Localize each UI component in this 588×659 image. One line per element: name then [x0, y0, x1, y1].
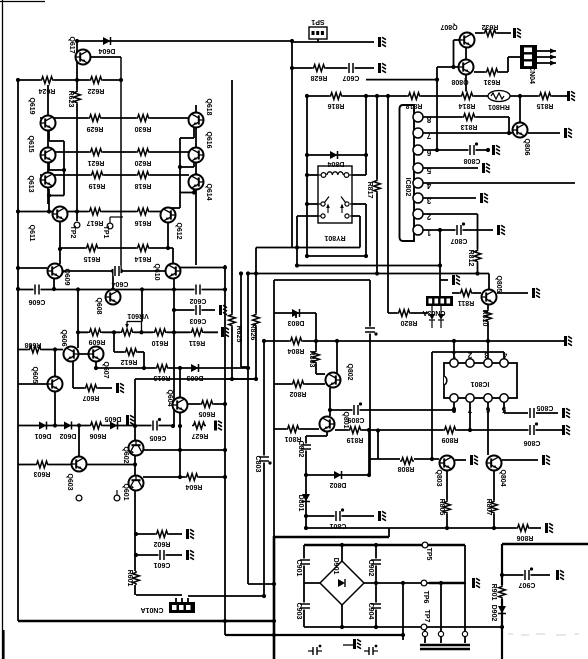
svg-text:SP1: SP1 — [311, 18, 324, 25]
svg-text:R612: R612 — [121, 358, 138, 365]
svg-text:6: 6 — [426, 148, 431, 157]
svg-text:Q806: Q806 — [523, 138, 530, 155]
svg-text:R625: R625 — [235, 326, 242, 343]
svg-text:C802: C802 — [297, 441, 304, 458]
svg-text:Q614: Q614 — [205, 183, 212, 200]
svg-text:TP1: TP1 — [102, 226, 109, 239]
svg-text:C806: C806 — [524, 439, 541, 446]
svg-text:R622: R622 — [88, 87, 105, 94]
svg-text:8: 8 — [451, 405, 456, 414]
svg-text:1: 1 — [451, 351, 456, 360]
svg-text:R629: R629 — [87, 125, 104, 132]
svg-text:Q617: Q617 — [68, 36, 75, 53]
svg-text:C605: C605 — [150, 434, 167, 441]
svg-text:R607: R607 — [83, 394, 100, 401]
svg-text:R815: R815 — [537, 102, 554, 109]
svg-text:R632: R632 — [482, 23, 499, 30]
svg-text:R618: R618 — [135, 182, 152, 189]
svg-text:R805: R805 — [438, 499, 445, 516]
svg-text:R601: R601 — [126, 570, 133, 587]
svg-text:Q604: Q604 — [166, 389, 173, 406]
svg-text:R608: R608 — [25, 341, 42, 348]
svg-text:4: 4 — [426, 181, 431, 190]
svg-text:R808: R808 — [398, 465, 415, 472]
svg-text:R603: R603 — [34, 470, 51, 477]
svg-text:R811: R811 — [458, 299, 474, 306]
svg-text:R814: R814 — [459, 102, 476, 109]
svg-text:R602: R602 — [154, 540, 171, 547]
svg-text:R604: R604 — [186, 483, 203, 490]
svg-text:1: 1 — [426, 228, 431, 237]
svg-text:Q609: Q609 — [63, 268, 70, 285]
svg-text:R611: R611 — [189, 339, 205, 346]
svg-text:R609: R609 — [89, 338, 106, 345]
svg-text:VR601: VR601 — [127, 312, 149, 319]
svg-text:R818: R818 — [406, 102, 423, 109]
svg-text:C902: C902 — [367, 560, 374, 577]
svg-text:Q602: Q602 — [122, 446, 129, 463]
svg-text:C907: C907 — [519, 581, 536, 588]
svg-text:Q616: Q616 — [205, 131, 212, 148]
svg-text:R820: R820 — [401, 319, 418, 326]
svg-text:R615: R615 — [84, 255, 101, 262]
svg-text:Q807: Q807 — [440, 23, 457, 30]
svg-text:Q608: Q608 — [95, 297, 102, 314]
svg-text:R901: R901 — [490, 584, 497, 601]
svg-text:D802: D802 — [330, 481, 347, 488]
svg-text:R621: R621 — [88, 159, 105, 166]
svg-text:Q613: Q613 — [27, 175, 34, 192]
svg-text:R616: R616 — [135, 219, 152, 226]
svg-text:CN03A: CN03A — [423, 309, 446, 316]
svg-text:R628: R628 — [311, 74, 328, 81]
svg-text:Q601: Q601 — [122, 483, 129, 500]
svg-text:6: 6 — [485, 405, 490, 414]
svg-text:Q803: Q803 — [435, 469, 442, 486]
svg-text:R810: R810 — [481, 310, 488, 327]
svg-text:C807: C807 — [451, 237, 468, 244]
svg-text:8: 8 — [426, 115, 431, 124]
svg-text:Q603: Q603 — [66, 473, 73, 490]
svg-text:D901: D901 — [332, 558, 339, 575]
svg-text:C607: C607 — [343, 74, 360, 81]
svg-text:IC802: IC802 — [404, 178, 411, 197]
svg-text:RY801: RY801 — [324, 234, 345, 241]
svg-text:Q802: Q802 — [346, 363, 353, 380]
svg-text:Q619: Q619 — [28, 97, 35, 114]
svg-text:R624: R624 — [39, 87, 56, 94]
svg-text:R826: R826 — [249, 324, 256, 341]
svg-text:D601: D601 — [35, 432, 52, 439]
svg-text:7: 7 — [467, 405, 472, 414]
svg-text:R627: R627 — [192, 432, 209, 439]
svg-text:R619: R619 — [89, 182, 106, 189]
svg-text:7: 7 — [426, 131, 431, 140]
svg-text:R812: R812 — [467, 250, 474, 267]
svg-text:R617: R617 — [87, 219, 104, 226]
svg-text:5: 5 — [426, 166, 431, 175]
svg-text:D801: D801 — [297, 495, 304, 512]
svg-text:R605: R605 — [199, 410, 216, 417]
svg-text:TP5: TP5 — [425, 548, 432, 561]
svg-text:C901: C901 — [295, 560, 302, 577]
svg-text:D605: D605 — [105, 415, 122, 422]
svg-text:Q808: Q808 — [451, 78, 468, 85]
svg-text:RH801: RH801 — [488, 103, 510, 110]
svg-text:R804: R804 — [288, 347, 305, 354]
svg-text:R631: R631 — [484, 78, 501, 85]
svg-text:R606: R606 — [90, 432, 107, 439]
svg-text:R802: R802 — [290, 390, 307, 397]
svg-text:CN01A: CN01A — [141, 606, 164, 613]
svg-text:R614: R614 — [135, 255, 152, 262]
svg-text:IC801: IC801 — [471, 380, 490, 387]
svg-text:Q610: Q610 — [153, 263, 160, 280]
svg-text:C904: C904 — [367, 603, 374, 620]
svg-text:C801: C801 — [330, 522, 347, 529]
svg-text:TP2: TP2 — [69, 226, 76, 239]
svg-text:C903: C903 — [295, 603, 302, 620]
svg-text:C603: C603 — [190, 317, 207, 324]
svg-text:C602: C602 — [190, 297, 207, 304]
svg-text:Q612: Q612 — [175, 222, 182, 239]
svg-text:3: 3 — [484, 351, 489, 360]
svg-text:D803: D803 — [288, 319, 305, 326]
svg-text:Q804: Q804 — [499, 469, 506, 486]
svg-text:C805: C805 — [537, 404, 554, 411]
svg-text:Q611: Q611 — [28, 225, 35, 242]
svg-text:Q606: Q606 — [60, 329, 67, 346]
svg-text:C808: C808 — [464, 157, 481, 164]
svg-text:2: 2 — [426, 212, 431, 221]
svg-text:CN04: CN04 — [528, 66, 535, 84]
svg-text:Q618: Q618 — [205, 98, 212, 115]
svg-text:3: 3 — [426, 196, 431, 205]
svg-text:C809: C809 — [348, 416, 365, 423]
svg-text:R817: R817 — [366, 182, 373, 199]
svg-text:R803: R803 — [308, 351, 315, 368]
svg-text:R613: R613 — [154, 374, 171, 381]
svg-text:Q607: Q607 — [102, 361, 109, 378]
svg-text:R623: R623 — [67, 91, 74, 108]
svg-text:R816: R816 — [328, 102, 345, 109]
svg-text:C803: C803 — [254, 456, 261, 473]
svg-text:R620: R620 — [135, 159, 152, 166]
svg-text:R807: R807 — [485, 499, 492, 516]
svg-text:D603: D603 — [187, 374, 204, 381]
svg-text:R610: R610 — [152, 339, 169, 346]
svg-text:R809: R809 — [442, 436, 459, 443]
svg-text:R630: R630 — [135, 125, 152, 132]
svg-text:R819: R819 — [347, 436, 364, 443]
svg-text:D602: D602 — [60, 432, 77, 439]
svg-text:C601: C601 — [154, 561, 171, 568]
svg-text:D902: D902 — [490, 605, 497, 622]
svg-text:Q605: Q605 — [31, 366, 38, 383]
svg-text:Q805: Q805 — [495, 275, 502, 292]
svg-text:TP7: TP7 — [423, 610, 430, 623]
svg-text:C604: C604 — [112, 280, 129, 287]
svg-text:R806: R806 — [517, 534, 534, 541]
svg-text:D604: D604 — [99, 47, 116, 54]
svg-text:R813: R813 — [461, 123, 478, 130]
svg-text:5: 5 — [501, 405, 506, 414]
svg-text:2: 2 — [467, 351, 472, 360]
svg-text:4: 4 — [502, 351, 507, 360]
svg-text:D804: D804 — [328, 160, 345, 167]
svg-text:Q615: Q615 — [27, 135, 34, 152]
svg-text:TP6: TP6 — [422, 591, 429, 604]
svg-text:C606: C606 — [29, 298, 46, 305]
